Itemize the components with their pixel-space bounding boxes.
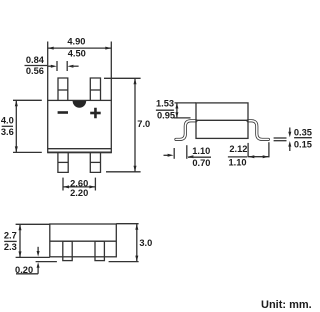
pin top-left [58, 78, 68, 100]
body bottom band line [48, 148, 112, 150]
pin bottom-left [58, 153, 68, 173]
dim 1.10/0.70 [173, 148, 175, 159]
dim 7.0 right [104, 77, 141, 79]
right gull-wing lead [248, 121, 268, 140]
svg-text:1.53: 1.53 [156, 99, 174, 109]
svg-text:7.0: 7.0 [137, 119, 150, 129]
svg-text:4.90: 4.90 [67, 37, 85, 47]
side body [196, 103, 248, 138]
plus symbol [90, 112, 101, 115]
minus symbol [58, 111, 68, 114]
pin bottom-right [90, 153, 100, 173]
dim 4.90/4.50 top [47, 42, 49, 101]
dim 0.20 [37, 247, 39, 251]
dim 3.0 [116, 223, 138, 225]
left gull-wing lead [176, 121, 196, 140]
svg-text:0.56: 0.56 [26, 66, 44, 76]
dim 2.60/2.20 bottom [62, 178, 64, 191]
bottom view flange line [50, 240, 117, 242]
svg-text:2.7: 2.7 [4, 230, 17, 240]
polarity index dot (black half circle) [73, 101, 87, 108]
bottom view body [50, 224, 117, 257]
svg-text:1.10: 1.10 [228, 158, 246, 168]
seating plane lines [36, 261, 57, 263]
dim 1.53/0.95 [175, 102, 197, 104]
svg-text:2.3: 2.3 [4, 242, 17, 252]
svg-text:0.35: 0.35 [294, 128, 312, 138]
svg-text:1.10: 1.10 [192, 146, 210, 156]
svg-text:4.50: 4.50 [68, 49, 86, 59]
svg-text:0.15: 0.15 [294, 140, 312, 150]
body outline [48, 100, 112, 152]
dim 4.0/3.6 left [13, 99, 42, 101]
svg-text:0.70: 0.70 [192, 158, 210, 168]
svg-text:0.95: 0.95 [157, 111, 175, 121]
svg-text:0.84: 0.84 [26, 55, 45, 65]
svg-text:3.0: 3.0 [139, 238, 152, 248]
dim 0.35/0.15 [274, 137, 287, 139]
leads [63, 241, 72, 260]
pin top-right [90, 78, 100, 100]
svg-text:2.20: 2.20 [70, 188, 88, 198]
svg-text:2.12: 2.12 [229, 144, 247, 154]
svg-text:3.6: 3.6 [1, 127, 14, 137]
dim 2.7/2.3 [16, 223, 50, 225]
svg-text:Unit: mm.: Unit: mm. [261, 299, 312, 311]
svg-text:4.0: 4.0 [1, 115, 14, 125]
svg-text:2.60: 2.60 [70, 178, 88, 188]
